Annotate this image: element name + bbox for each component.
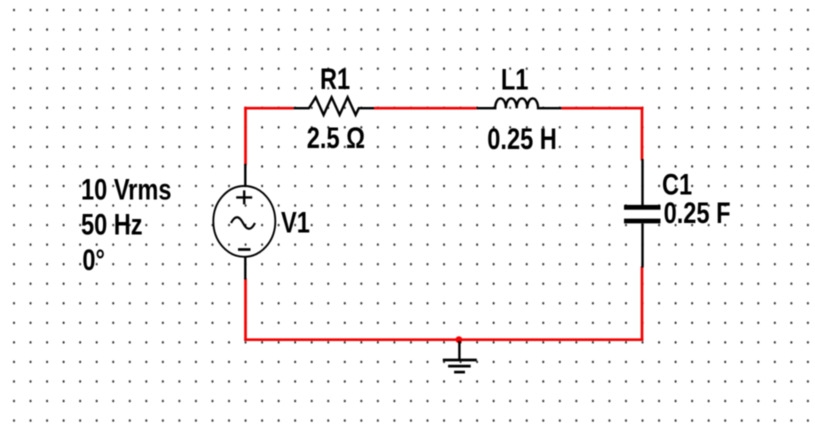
capacitor C1 bottom plate (624, 219, 661, 224)
svg-text:50 Hz: 50 Hz (81, 208, 143, 241)
value label 0.25 F (664, 196, 731, 229)
svg-text:0.25 F: 0.25 F (664, 196, 731, 229)
source parameter label 50 Hz (81, 208, 143, 241)
ac source V1 bottom lead (244, 257, 246, 280)
wire top-middle horizontal segment (between R1 and L1) (374, 107, 477, 110)
ac source V1 body (circle) (213, 186, 275, 257)
ac source V1 top lead (244, 164, 246, 186)
label R1 (320, 62, 350, 95)
junction node (red dot on bottom wire) (456, 336, 463, 343)
capacitor C1 bottom lead (641, 224, 643, 268)
wire bottom horizontal segment (244, 338, 643, 341)
wire top-left horizontal segment (244, 107, 293, 110)
value label 0.25 H (487, 122, 557, 155)
label C1 (662, 168, 692, 201)
svg-text:0.25 H: 0.25 H (487, 122, 557, 155)
wire left vertical upper segment (244, 107, 247, 165)
capacitor C1 top lead (641, 159, 643, 205)
label L1 (501, 63, 529, 96)
ground bar 3 (454, 371, 465, 374)
inductor L1 (477, 98, 562, 108)
label V1 (281, 206, 310, 239)
value label 2.5 Ω (307, 121, 365, 154)
capacitor C1 top plate (624, 205, 661, 210)
ground bar 1 (443, 359, 477, 362)
wire left vertical lower segment (244, 278, 247, 341)
ground bar 2 (448, 365, 471, 368)
wire right vertical lower segment (641, 266, 644, 341)
ac source V1 minus sign (238, 248, 251, 251)
svg-text:0°: 0° (82, 243, 105, 276)
svg-text:10 Vrms: 10 Vrms (81, 173, 172, 206)
ac source V1 plus sign (236, 190, 252, 204)
wire top-right horizontal segment (561, 107, 643, 110)
svg-text:V1: V1 (281, 206, 310, 239)
svg-text:R1: R1 (320, 62, 350, 95)
source parameter label 0° (82, 243, 105, 276)
resistor R1 (294, 97, 374, 115)
wire right vertical upper segment (641, 107, 644, 160)
ground stub (458, 341, 460, 360)
svg-text:2.5 Ω: 2.5 Ω (307, 121, 365, 154)
svg-text:L1: L1 (501, 63, 529, 96)
ac source V1 sine symbol (231, 217, 255, 229)
source parameter label 10 Vrms (81, 173, 172, 206)
